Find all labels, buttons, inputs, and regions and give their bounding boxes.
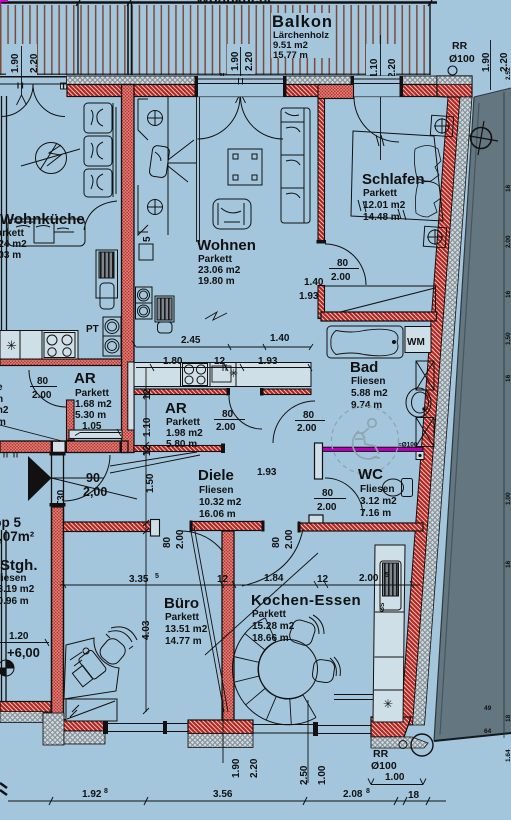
kochen south wall (188, 720, 253, 734)
wc south wall (300, 523, 423, 531)
schlafen door dims (331, 258, 351, 283)
svg-text:e: e (0, 382, 3, 393)
plant circle top (147, 110, 163, 126)
opening schlafen balcony door (351, 76, 404, 97)
dim 1.90/2.20 mid (227, 44, 255, 103)
svg-text:2.00: 2.00 (175, 529, 186, 549)
svg-text:m2: m2 (0, 405, 9, 416)
door jamb squares left (61, 83, 64, 89)
purple partition end box (416, 452, 424, 460)
kochen south-east corner wall (371, 717, 411, 737)
nightstand bottom (423, 226, 446, 247)
corridor south wall west segment (64, 522, 151, 532)
label 5 rotated (142, 236, 153, 242)
plant circle bottom (147, 199, 163, 215)
corridor south wall mid segment (192, 522, 263, 531)
rotated door dims buero (162, 529, 186, 549)
right dim chain texts (484, 67, 511, 762)
svg-text:3.56: 3.56 (213, 789, 233, 800)
schlafen door arc (325, 244, 366, 285)
AR1 door dims (32, 376, 52, 401)
schlafen west wall upper (318, 97, 325, 241)
fridge tall cabinet (96, 250, 118, 309)
svg-text:3.12 m2: 3.12 m2 (360, 496, 397, 507)
gray band left edge line (434, 97, 474, 741)
desk return table (66, 699, 117, 721)
svg-text:2.00: 2.00 (284, 529, 295, 549)
kochen-essen label (251, 592, 361, 644)
desk chair with lamp rays (149, 140, 196, 182)
dim 1.05 (82, 421, 102, 432)
svg-text:13.51 m2: 13.51 m2 (165, 624, 208, 635)
svg-text:2.00: 2.00 (331, 272, 351, 283)
bottom window dims 1.90/2.20 (231, 758, 260, 778)
AR1 white partition band (69, 430, 122, 439)
RR bottom label (371, 748, 405, 783)
sideboard strip (138, 97, 168, 236)
svg-text:AR: AR (165, 400, 187, 417)
balcony deck boards (0, 5, 430, 75)
bottom window dims 2.50/1.00 (299, 765, 328, 785)
svg-text:2.00: 2.00 (297, 423, 317, 434)
entrance door jambs (50, 453, 66, 456)
bed (351, 131, 443, 221)
entrance door dims (83, 471, 107, 499)
wohnen sofa right (281, 108, 310, 223)
svg-text:23.06 m2: 23.06 m2 (198, 265, 241, 276)
svg-text:18: 18 (505, 714, 511, 722)
chair NE (288, 615, 324, 647)
magenta corner mark (0, 1, 8, 6)
svg-text:80: 80 (337, 258, 349, 269)
kochen south window 2 (318, 726, 371, 734)
svg-text:16: 16 (505, 184, 511, 192)
svg-text:19.80 m: 19.80 m (198, 276, 235, 287)
survey point symbol (464, 121, 498, 155)
opening wohnen balcony door (195, 76, 287, 97)
dim 1.20 (9, 631, 29, 642)
left apartment cut labels (0, 382, 9, 428)
svg-text:1.50: 1.50 (145, 473, 156, 493)
wohnkueche ceiling lamp (21, 143, 80, 174)
diele label (198, 467, 277, 520)
kochen counter bottom lines (334, 695, 373, 700)
svg-text:Bad: Bad (350, 359, 378, 376)
svg-text:RR: RR (452, 40, 468, 52)
svg-text:Schlafen: Schlafen (362, 171, 425, 188)
mid dim line row1 (136, 346, 311, 348)
niche sink (229, 368, 238, 380)
wohnen armchair (213, 199, 251, 229)
desk (64, 638, 119, 699)
svg-text:1.40: 1.40 (270, 333, 290, 344)
main divider wall wohnkueche/wohnen (122, 85, 135, 453)
dim 1.90/2.20 right (481, 40, 510, 90)
wohnen door centre line (197, 97, 200, 242)
niche counter outline (134, 363, 311, 387)
svg-text:2.20: 2.20 (244, 51, 255, 71)
svg-text:GS: GS (379, 602, 386, 612)
svg-text:WM: WM (407, 337, 425, 348)
svg-text:1.64: 1.64 (505, 749, 511, 762)
svg-text:1.80: 1.80 (163, 356, 183, 367)
svg-text:5: 5 (142, 236, 153, 242)
wc west wall stub (309, 515, 323, 524)
svg-text:18.66 m: 18.66 m (252, 633, 289, 644)
svg-text:≈Ø100: ≈Ø100 (398, 442, 418, 449)
svg-text:Parkett: Parkett (75, 388, 110, 399)
AR2 south thin wall (134, 446, 224, 452)
mirror cabinet upper (416, 361, 434, 390)
svg-text:1.00: 1.00 (505, 492, 511, 505)
entrance door arc (64, 455, 110, 501)
svg-text:✳: ✳ (6, 338, 17, 353)
svg-text:Ø100: Ø100 (371, 760, 397, 772)
cooktop (183, 364, 208, 386)
svg-text:1.10: 1.10 (369, 58, 380, 78)
svg-text:64: 64 (484, 728, 492, 735)
buero/kochen divider wall (222, 531, 234, 722)
svg-text:12: 12 (142, 444, 153, 456)
svg-text:✳: ✳ (229, 368, 238, 380)
wohnkueche armchairs column (84, 103, 116, 197)
svg-text:3.35: 3.35 (129, 574, 149, 585)
svg-text:80: 80 (271, 536, 282, 548)
toilet (383, 479, 413, 497)
svg-text:Parkett: Parkett (198, 254, 233, 265)
wc door arc (325, 478, 363, 516)
wc/bad purple partition (323, 447, 424, 451)
svg-text:80: 80 (162, 536, 173, 548)
svg-text:Fliesen: Fliesen (351, 376, 385, 387)
svg-text:2.20: 2.20 (249, 758, 260, 778)
svg-text:4.03: 4.03 (141, 620, 152, 640)
svg-text:1.90: 1.90 (231, 758, 242, 778)
svg-text:2.08: 2.08 (343, 789, 363, 800)
stgh south wall (0, 702, 51, 713)
wheelchair symbol (332, 407, 399, 474)
kitchen appliances wohnen side (136, 287, 175, 333)
svg-text:55,07m²: 55,07m² (0, 529, 35, 544)
svg-text:10.32 m2: 10.32 m2 (199, 497, 242, 508)
wc label (358, 466, 397, 519)
bad label (350, 359, 388, 411)
svg-text:2.20: 2.20 (387, 58, 398, 78)
svg-text:1.00: 1.00 (385, 772, 405, 783)
svg-text:Balkon: Balkon (272, 13, 333, 31)
balcony left divider line (77, 4, 79, 74)
svg-text:12: 12 (142, 388, 153, 400)
svg-text:AR: AR (74, 370, 96, 387)
right exterior wall red band (401, 97, 461, 725)
Balkon label (271, 13, 335, 61)
svg-text:PT: PT (86, 324, 99, 335)
svg-text:2.00: 2.00 (505, 235, 511, 248)
sink star (383, 697, 393, 711)
rotated door dims kochen (271, 529, 295, 549)
wohnkueche label (0, 211, 85, 261)
svg-text:1.93: 1.93 (299, 291, 319, 302)
top exterior wall red band (67, 85, 437, 97)
svg-text:2.00: 2.00 (359, 573, 379, 584)
svg-text:12: 12 (214, 356, 226, 367)
bad door arc (273, 401, 315, 443)
svg-text:14.77 m: 14.77 m (165, 636, 202, 647)
AR2 north thin wall (134, 389, 228, 395)
balcony divider wall (128, 3, 132, 75)
svg-text:12: 12 (317, 574, 329, 585)
svg-text:1.93: 1.93 (258, 356, 278, 367)
bathtub (327, 326, 403, 358)
neighbour building gray band (434, 88, 511, 741)
top5 label (0, 515, 35, 544)
right exterior wall insulation (413, 97, 473, 725)
schlafen top wall junction (318, 85, 354, 99)
sink star symbol (6, 338, 17, 353)
svg-text:T30: T30 (56, 489, 67, 507)
svg-text:8: 8 (104, 788, 108, 795)
svg-text:Parkett: Parkett (252, 609, 287, 620)
left apartment west wall lines (2, 96, 7, 365)
svg-text:✳: ✳ (383, 697, 393, 711)
stgh label (0, 557, 38, 607)
svg-text:Ø100: Ø100 (449, 53, 475, 65)
dim 1.90/2.20 left (6, 44, 40, 105)
mid dim texts (163, 277, 324, 367)
svg-text:5.80 m: 5.80 m (166, 439, 197, 450)
parquet direction marks (205, 312, 227, 320)
schlafen wardrobe (325, 286, 436, 317)
left apartment top wall thin lines (0, 77, 66, 85)
svg-text:Top 5: Top 5 (0, 515, 21, 530)
svg-text:12.01 m2: 12.01 m2 (363, 200, 406, 211)
top edge tick marks (76, 0, 432, 6)
svg-text:10.96 m: 10.96 m (0, 596, 29, 607)
svg-text:16: 16 (505, 560, 511, 568)
wohnkueche sofa (8, 219, 85, 246)
wohnen table (228, 149, 262, 185)
svg-text:5: 5 (155, 573, 159, 580)
corridor wall door gap (53, 442, 65, 452)
svg-text:15.28 m2: 15.28 m2 (252, 621, 295, 632)
svg-text:1.84: 1.84 (264, 573, 284, 584)
gray band bottom edge (434, 733, 511, 741)
gray band inner line (440, 103, 479, 735)
svg-text:16: 16 (505, 290, 511, 298)
AR1 label (74, 370, 112, 421)
svg-text:2.00: 2.00 (32, 390, 52, 401)
dim 1.10/2.20 schlafen window (366, 35, 398, 160)
corridor wall left jamb ticks (4, 453, 17, 458)
svg-text:16: 16 (505, 374, 511, 382)
svg-text:80: 80 (322, 488, 334, 499)
svg-text:1.40: 1.40 (304, 277, 324, 288)
bottom dim chain (8, 800, 446, 802)
level mark +6.00 (7, 645, 40, 660)
AR2 label (165, 400, 203, 450)
svg-text:Parkett: Parkett (165, 612, 200, 623)
washing machine WM (405, 327, 431, 353)
buero/kochen dim row y585 (60, 584, 420, 586)
svg-text:1.00: 1.00 (317, 765, 328, 785)
balcony right edge (429, 3, 431, 75)
left apartment door arcs (1, 85, 65, 117)
AR2 door dims (216, 409, 236, 433)
svg-text:Diele: Diele (198, 467, 234, 484)
svg-text:13.19 m2: 13.19 m2 (0, 584, 35, 595)
svg-text:18: 18 (408, 790, 420, 801)
svg-text:1.05: 1.05 (82, 421, 102, 432)
vertical dim chain x146 (145, 368, 147, 712)
dishwasher GS (379, 561, 401, 612)
kitchen counter right (373, 545, 405, 722)
oven stack (103, 317, 121, 356)
buero door arc (181, 531, 234, 584)
svg-text:2.00: 2.00 (317, 502, 337, 513)
svg-text:5.88 m2: 5.88 m2 (351, 388, 388, 399)
mirror cabinet lower (416, 418, 434, 447)
kitchen counter left (0, 331, 78, 360)
svg-text:16.06 m: 16.06 m (199, 509, 236, 520)
corridor wall right cap (120, 441, 123, 453)
svg-text:Fliesen: Fliesen (0, 573, 26, 584)
staircase vertical wall (52, 455, 64, 507)
railing ticks (18, 73, 224, 89)
mid dim line row2 (136, 367, 311, 369)
T30 label (56, 489, 67, 507)
svg-text:1.93: 1.93 (257, 467, 277, 478)
wohnen label (197, 237, 256, 287)
buero label (164, 595, 208, 647)
svg-text:m: m (0, 417, 6, 428)
svg-text:5: 5 (385, 572, 389, 579)
svg-text:Parkett: Parkett (0, 228, 25, 239)
svg-text:8: 8 (366, 788, 370, 795)
chair E (312, 657, 341, 683)
gray band top edge (474, 88, 511, 97)
svg-text:RR: RR (373, 748, 389, 760)
RR pipe circle top (448, 66, 457, 75)
svg-text:80: 80 (37, 376, 49, 387)
svg-text:2.00: 2.00 (216, 422, 236, 433)
corridor south wall jamb white (151, 520, 160, 537)
kochen window south (253, 725, 313, 734)
kochen leader diagonal (205, 553, 318, 655)
svg-text:1.90: 1.90 (230, 51, 241, 71)
top-right corner wall block (437, 76, 472, 97)
corridor wall (staircase demising) (0, 441, 128, 453)
buero window south (107, 724, 188, 732)
AR2 door arc (229, 396, 262, 429)
svg-text:80: 80 (303, 410, 315, 421)
svg-text:Fliesen: Fliesen (360, 484, 394, 495)
right dim chain line (503, 92, 505, 738)
balcony bottom double edge (0, 74, 430, 77)
svg-text:Büro: Büro (164, 595, 199, 612)
top exterior wall insulation (67, 76, 438, 85)
svg-text:Stgh.: Stgh. (0, 557, 38, 574)
svg-text:Parkett: Parkett (363, 188, 398, 199)
svg-text:12: 12 (217, 574, 229, 585)
svg-text:1.68 m2: 1.68 m2 (75, 399, 112, 410)
nightstand top (430, 115, 453, 136)
dining table (259, 640, 318, 699)
svg-text:WC: WC (358, 466, 383, 483)
svg-text:Wohnküche: Wohnküche (196, 0, 275, 7)
svg-text:80: 80 (222, 409, 234, 420)
svg-text:1.10: 1.10 (142, 417, 153, 437)
svg-text:1.50: 1.50 (505, 332, 511, 345)
wc door dims (317, 488, 337, 513)
schlafen west wall lower (318, 286, 325, 319)
AR1 door arc (29, 370, 66, 407)
RR bottom dim line (368, 779, 426, 785)
svg-text:1.20: 1.20 (9, 631, 29, 642)
svg-text:4.24 m2: 4.24 m2 (0, 239, 27, 250)
wash basin (406, 388, 431, 417)
balcony top edge line (0, 1, 437, 4)
svg-text:Kochen-Essen: Kochen-Essen (251, 592, 361, 609)
wohnkueche south wall (0, 359, 122, 366)
installation wall white strip (128, 362, 134, 430)
svg-text:5.30 m: 5.30 m (75, 410, 106, 421)
svg-text:2.20: 2.20 (29, 53, 40, 73)
svg-text:7.16 m: 7.16 m (360, 508, 391, 519)
svg-text:1.98 m2: 1.98 m2 (166, 428, 203, 439)
bad door dims (297, 410, 317, 434)
buero section diagonals (190, 526, 228, 712)
RR pipe circles bottom (411, 734, 433, 756)
buero south wall west (64, 720, 105, 732)
printer box (139, 244, 153, 260)
wohnkueche corner arc (84, 201, 117, 230)
stairs arrow triangle (28, 456, 52, 501)
kochen door arc (242, 529, 303, 586)
svg-text:49: 49 (484, 705, 492, 712)
schlafen label (362, 171, 425, 223)
PT label (86, 324, 99, 335)
left edge lower mark (0, 783, 7, 795)
svg-text:1.92: 1.92 (82, 789, 102, 800)
svg-text:2.52: 2.52 (505, 67, 511, 80)
svg-text:n: n (0, 394, 3, 405)
bad west wall stub (315, 443, 323, 479)
chair fan spokes (233, 618, 316, 725)
svg-text:9.03 m: 9.03 m (0, 250, 21, 261)
svg-text:15.77 m: 15.77 m (273, 50, 308, 61)
svg-text:1.90: 1.90 (10, 53, 21, 73)
svg-text:Parkett: Parkett (166, 417, 201, 428)
AR1 door stub wall (67, 400, 75, 440)
office chair (97, 627, 137, 667)
diele leader diagonals (110, 452, 200, 473)
svg-text:2.45: 2.45 (181, 335, 201, 346)
schlafen balcony door arc (354, 97, 399, 142)
svg-text:Wohnen: Wohnen (197, 237, 256, 254)
wohnen balcony door arcs (198, 97, 284, 140)
svg-text:Fliesen: Fliesen (199, 485, 233, 496)
svg-text:+6,00: +6,00 (7, 645, 40, 660)
chair fan ring (232, 618, 316, 725)
bad north wall (321, 312, 437, 321)
svg-text:Wohnküche: Wohnküche (0, 211, 85, 228)
